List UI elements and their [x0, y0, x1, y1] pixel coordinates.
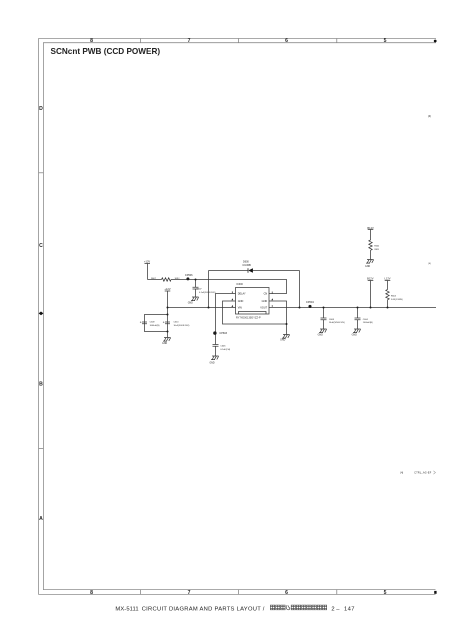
svg-text:CIRCUIT DIAGRAM AND PARTS LAYO: CIRCUIT DIAGRAM AND PARTS LAYOUT /	[142, 606, 265, 612]
power +12V (VIN)	[165, 291, 171, 308]
svg-text:(4): (4)	[428, 114, 431, 118]
test point CP604	[308, 305, 311, 308]
ground C608	[319, 329, 327, 333]
wire GND right pin	[269, 301, 287, 335]
ground C606	[211, 356, 219, 360]
svg-text:10RJ: 10RJ	[175, 278, 180, 280]
svg-text:RY7X000130DYZZ-P: RY7X000130DYZZ-P	[236, 317, 261, 320]
node junction cap loop top	[167, 314, 169, 316]
capacitor C609	[142, 322, 147, 324]
svg-text:5.6K(1/16W): 5.6K(1/16W)	[391, 299, 403, 301]
svg-text:A: A	[39, 516, 43, 522]
svg-text:C: C	[39, 243, 43, 249]
ground cap bank	[163, 338, 171, 342]
wire cap bank stem	[167, 308, 169, 338]
svg-text:7: 7	[188, 590, 191, 596]
power L12V	[385, 281, 391, 290]
bottom-right border end marker	[434, 591, 436, 594]
svg-text:8: 8	[90, 590, 93, 596]
svg-text:1000uF(B): 1000uF(B)	[150, 325, 160, 327]
capacitor C608	[321, 308, 327, 330]
node junction C608	[323, 307, 325, 309]
svg-text:B: B	[39, 382, 43, 388]
IC600 regulator box	[236, 288, 270, 315]
pin number 2	[231, 305, 233, 307]
svg-text:+12V: +12V	[164, 287, 170, 291]
svg-text:C610: C610	[174, 322, 180, 324]
svg-text:C604: C604	[363, 319, 369, 321]
svg-text:6: 6	[285, 38, 288, 44]
junction node dots	[167, 279, 389, 333]
pin number 3 right	[271, 305, 273, 307]
node junction R604	[387, 307, 389, 309]
power B12V (top R602)	[368, 230, 374, 241]
svg-text:C609: C609	[150, 322, 156, 324]
svg-text:2: 2	[331, 606, 334, 612]
wire GND left pin	[223, 301, 287, 324]
svg-text:CP603: CP603	[219, 332, 227, 335]
ground C607	[191, 297, 199, 301]
svg-text:8: 8	[90, 38, 93, 44]
svg-text:SCNcnt PWB (CCD POWER): SCNcnt PWB (CCD POWER)	[51, 47, 161, 56]
node junction diode-VIN	[208, 307, 210, 309]
diode D600	[248, 268, 253, 273]
border frame outer	[39, 39, 436, 595]
left border ticks	[39, 173, 44, 449]
wire cap bank loop	[145, 315, 168, 332]
svg-text:R602: R602	[374, 245, 380, 247]
svg-text:CP604: CP604	[306, 300, 314, 304]
svg-text:7: 7	[188, 38, 191, 44]
svg-text:VIN: VIN	[238, 307, 242, 310]
node junction R607/C607	[195, 279, 197, 281]
svg-text:10uF(50V.B 16V): 10uF(50V.B 16V)	[174, 325, 190, 327]
test point CP603	[213, 331, 216, 334]
left border arrow marker	[39, 312, 44, 316]
svg-text:D: D	[39, 106, 43, 112]
svg-text:DELAY: DELAY	[238, 293, 246, 296]
svg-text:GND: GND	[365, 266, 370, 268]
svg-text:C606: C606	[220, 345, 226, 347]
test point CP606	[186, 277, 189, 280]
net label (4) CTRL_AG-EF	[400, 471, 435, 475]
polarity mark C609	[140, 321, 142, 323]
svg-text:GND: GND	[318, 335, 323, 337]
svg-text:C608: C608	[329, 319, 335, 321]
ground R602	[366, 260, 374, 264]
ground IC600	[282, 335, 290, 339]
svg-text:GND: GND	[280, 340, 285, 342]
svg-text:R604: R604	[391, 296, 397, 298]
svg-text:CN: CN	[264, 293, 268, 296]
capacitor C607	[193, 280, 199, 298]
svg-text:5: 5	[384, 590, 387, 596]
resistor R604	[386, 290, 389, 308]
top-right border end marker	[434, 40, 437, 43]
ground C604	[353, 329, 361, 333]
svg-text:B12V: B12V	[367, 226, 374, 230]
svg-text:6: 6	[285, 590, 288, 596]
svg-text:20RJ: 20RJ	[374, 249, 379, 251]
svg-text:+12V: +12V	[144, 260, 150, 264]
svg-text:MX-5111: MX-5111	[115, 606, 138, 612]
bottom caption	[115, 605, 354, 612]
diode D600 bypass wire	[209, 271, 300, 308]
svg-text:(4): (4)	[400, 472, 403, 475]
svg-text:CP606: CP606	[185, 274, 193, 277]
node junction diode-VOUT	[299, 307, 301, 309]
svg-text:1000uF(B): 1000uF(B)	[363, 322, 373, 324]
svg-text:GND: GND	[209, 362, 214, 364]
capacitor C604	[355, 308, 361, 330]
pin number 3	[231, 298, 233, 300]
node junction GND wires	[286, 323, 288, 325]
resistor R607	[162, 278, 172, 281]
polarity mark C610	[163, 321, 165, 323]
svg-text:5: 5	[384, 38, 387, 44]
svg-text:IC600: IC600	[236, 283, 243, 286]
wire +12V to resistor	[148, 279, 162, 281]
svg-text:(4): (4)	[428, 263, 431, 265]
pin number 4 right	[271, 298, 273, 300]
svg-text:0.1uF(50V.B 16V): 0.1uF(50V.B 16V)	[199, 292, 216, 294]
node junction +12V bus	[167, 307, 169, 309]
wire DELAY pin to CP603	[216, 294, 236, 334]
svg-text:R607: R607	[151, 278, 157, 280]
svg-text:GND: GND	[188, 302, 193, 304]
svg-text:GND: GND	[238, 300, 244, 303]
pin number 1	[231, 291, 233, 293]
capacitor C606	[213, 333, 219, 356]
wire R607 to CN pin	[171, 280, 287, 294]
pin number 2 right	[272, 292, 273, 294]
node junction B12V	[370, 307, 372, 309]
svg-text:GND: GND	[262, 300, 268, 303]
svg-text:D600: D600	[243, 261, 249, 264]
wire VOUT bus	[269, 307, 436, 309]
svg-text:VOUT: VOUT	[260, 307, 267, 310]
svg-text:B12V: B12V	[367, 277, 374, 281]
IC600 bottom notch	[239, 312, 267, 315]
svg-text:10uF(50V.B 16V): 10uF(50V.B 16V)	[329, 322, 345, 324]
wire VIN bus	[168, 307, 236, 309]
capacitor C610	[165, 322, 170, 324]
svg-text:CTRL_AG-EF: CTRL_AG-EF	[414, 472, 431, 475]
power B12V (bus)	[368, 281, 374, 308]
svg-text:GND: GND	[162, 343, 167, 345]
border frame inner	[43, 43, 436, 590]
bottom border ticks	[141, 590, 337, 595]
svg-text:0.5uF(CH): 0.5uF(CH)	[220, 349, 230, 351]
svg-text:CU30B: CU30B	[242, 263, 251, 267]
node junction cap loop bottom	[167, 331, 169, 333]
resistor R602	[369, 240, 372, 260]
svg-text:C607: C607	[197, 288, 203, 290]
svg-text:147: 147	[344, 606, 355, 612]
node junction C604	[357, 307, 359, 309]
top border ticks	[141, 39, 337, 43]
power +12V (input)	[145, 264, 151, 280]
svg-text:GND: GND	[352, 335, 357, 337]
svg-text:L12V: L12V	[384, 277, 390, 281]
